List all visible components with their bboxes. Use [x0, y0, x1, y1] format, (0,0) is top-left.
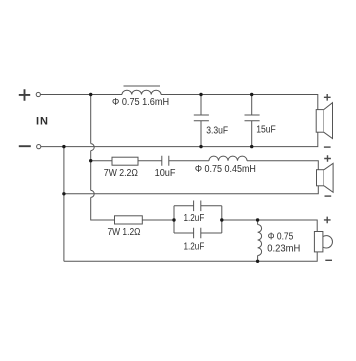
speaker SP3 tweeter driver rect [314, 232, 323, 252]
wire: top branch right [201, 205, 222, 207]
svg-text:Φ 0.75 0.45mH: Φ 0.75 0.45mH [195, 164, 256, 175]
capacitor C2 15uF top lead [251, 95, 253, 116]
wire hop over midrange return rail [91, 190, 95, 197]
svg-text:0.23mH: 0.23mH [267, 244, 300, 255]
svg-text:7W 1.2Ω: 7W 1.2Ω [108, 227, 141, 238]
inductor L3 0.23mH top lead [257, 220, 259, 225]
inductor L1 core bar [124, 85, 161, 87]
junction: parallel caps left node [172, 218, 175, 221]
wire: bottom rail to speaker SP3 negative [64, 252, 317, 261]
wire: plus rail left segment [41, 94, 123, 96]
speaker SP2 minus mark [325, 195, 332, 197]
speaker SP1 cone [324, 103, 333, 139]
capacitor C5 1.2uF plates [194, 228, 201, 239]
junction: C2 top [250, 93, 253, 96]
junction: midrange return tap [62, 192, 65, 195]
wire: top branch left [174, 205, 194, 207]
wire: R2 to parallel capacitor left node [142, 219, 173, 221]
junction: parallel caps right node [220, 218, 223, 221]
wire: plus rail right segment to speaker SP1 [161, 95, 318, 110]
wire hop over minus rail [91, 144, 95, 151]
inductor L3 vertical coil [258, 225, 262, 256]
inductor L3 bottom lead [257, 256, 259, 262]
wire: R1 to C3 [138, 160, 162, 162]
wire: vertical from plus rail (with hops) down to branch 3 [90, 95, 92, 144]
capacitor C3 10uF plates [162, 156, 169, 166]
junction: plus rail / vertical [89, 93, 92, 96]
speaker SP3 minus mark [325, 259, 332, 261]
svg-text:1.2uF: 1.2uF [184, 241, 205, 252]
junction: minus rail / vertical [62, 145, 65, 148]
wire: parallel cap block left vertical [173, 206, 175, 233]
svg-text:1.2uF: 1.2uF [184, 213, 205, 224]
svg-text:3.3uF: 3.3uF [206, 125, 228, 136]
junction: C1 top [199, 93, 202, 96]
svg-text:IN: IN [36, 115, 49, 127]
capacitor C4 1.2uF plates [194, 201, 201, 212]
wire: right node to speaker SP3 positive [222, 220, 317, 232]
wire: bottom branch left [174, 232, 194, 234]
input + terminal symbol [19, 89, 30, 101]
speaker SP2 cone [324, 163, 333, 192]
capacitor C1 3.3uF top lead [200, 95, 202, 116]
svg-text:Φ 0.75: Φ 0.75 [268, 231, 294, 242]
speaker SP1 woofer driver rect [316, 110, 324, 133]
speaker SP1 plus mark [324, 94, 331, 101]
junction: C1 bottom [199, 145, 202, 148]
junction: L3 top [256, 218, 259, 221]
inductor L2 coil 0.45mH [209, 156, 247, 161]
capacitor C1 bottom lead [200, 121, 202, 147]
capacitor C2 bottom lead [251, 121, 253, 147]
wire: vertical continues to branch 3 corner [91, 197, 115, 220]
speaker SP2 midrange driver rect [317, 170, 325, 186]
wire: parallel cap block right vertical [221, 206, 223, 233]
capacitor C2 plates [245, 115, 260, 121]
inductor L1 coil 1.6mH [122, 90, 161, 94]
speaker SP1 minus mark [324, 146, 331, 148]
input - terminal circle [37, 145, 41, 149]
svg-text:15uF: 15uF [256, 124, 276, 135]
junction: midrange branch tap [89, 159, 92, 162]
wire: vertical continues [90, 151, 92, 191]
wire: C3 to L2 [169, 160, 209, 162]
input + terminal circle [36, 92, 40, 96]
wire: L2 to speaker SP2 positive [247, 161, 318, 170]
junction: L3 bottom [256, 260, 259, 263]
input - terminal symbol [19, 145, 31, 147]
wire: midrange return rail to speaker SP2 negative [64, 186, 318, 194]
wire: midrange rail from vertical to resistor R1 [91, 160, 112, 162]
svg-text:Φ 0.75 1.6mH: Φ 0.75 1.6mH [112, 97, 169, 108]
capacitor C1 plates [194, 115, 209, 121]
wire: bottom branch right [201, 232, 222, 234]
svg-text:7W 2.2Ω: 7W 2.2Ω [104, 168, 138, 179]
speaker SP3 plus mark [324, 217, 331, 224]
wire: vertical from minus rail down to bottom rail [63, 147, 65, 262]
junction: C2 bottom [250, 145, 253, 148]
resistor R2 7W 1.2ohm body [115, 216, 143, 224]
speaker SP3 dome [323, 236, 333, 248]
speaker SP2 plus mark [324, 155, 331, 162]
svg-text:10uF: 10uF [155, 168, 176, 179]
resistor R1 7W 2.2ohm body [112, 157, 138, 165]
wire: minus rail to speaker SP1 negative [41, 132, 318, 146]
